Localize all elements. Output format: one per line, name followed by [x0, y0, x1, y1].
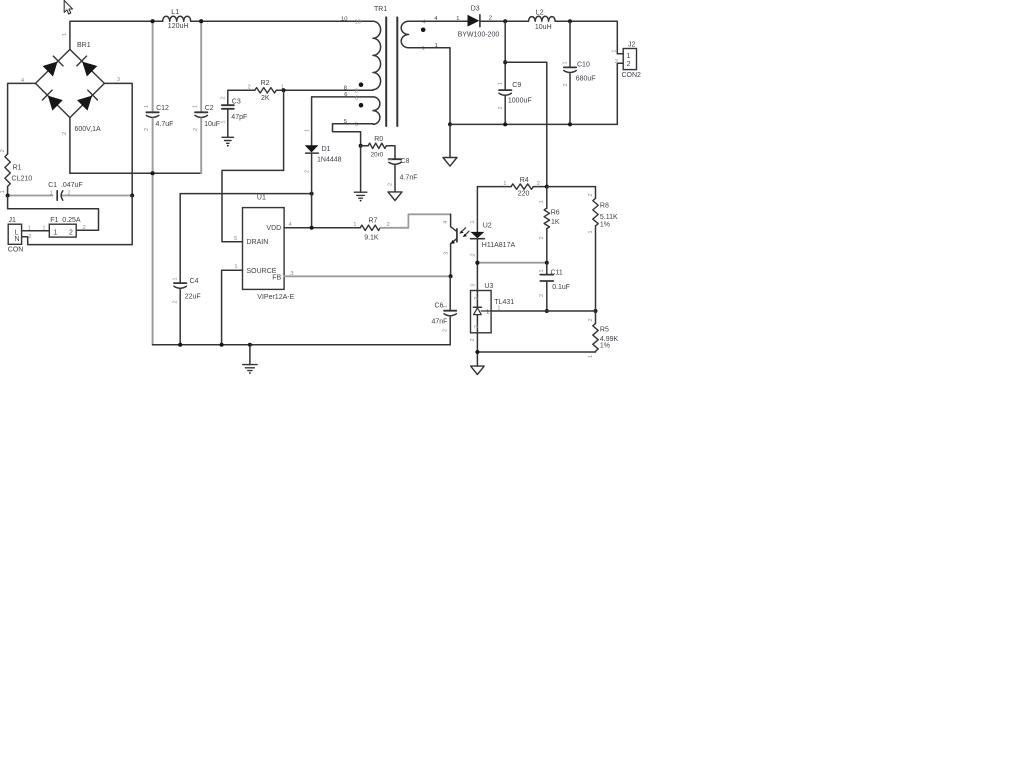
node junction C1 right	[130, 194, 134, 198]
svg-text:2: 2	[220, 96, 226, 99]
svg-text:R0: R0	[374, 136, 383, 143]
wire	[22, 230, 50, 232]
svg-text:9.1K: 9.1K	[364, 234, 379, 241]
optocoupler U2 LED arrows	[460, 228, 469, 237]
node junction overlay dots	[151, 19, 480, 265]
svg-text:D3: D3	[471, 6, 480, 13]
svg-text:1K: 1K	[551, 219, 560, 226]
node junction source gnd	[220, 343, 224, 347]
svg-text:2: 2	[442, 329, 448, 332]
svg-text:4: 4	[443, 221, 449, 224]
svg-text:CON: CON	[8, 247, 24, 254]
svg-text:120uH: 120uH	[168, 23, 189, 30]
capacitor C10	[563, 21, 596, 124]
node junction C4 gnd	[178, 343, 182, 347]
wire	[547, 187, 596, 199]
svg-text:1: 1	[442, 305, 448, 308]
svg-text:2: 2	[304, 170, 310, 173]
svg-text:1: 1	[144, 105, 150, 108]
svg-text:0.25A: 0.25A	[62, 217, 81, 224]
svg-text:1: 1	[220, 120, 226, 123]
svg-text:4.7uF: 4.7uF	[156, 121, 174, 128]
capacitor C6	[432, 276, 457, 344]
wire	[409, 48, 450, 125]
svg-text:2: 2	[0, 149, 6, 152]
svg-text:J1: J1	[9, 217, 17, 224]
svg-text:.047uF: .047uF	[61, 182, 83, 189]
svg-text:U2: U2	[483, 222, 492, 229]
ground arrow C8	[388, 192, 402, 201]
svg-text:BR1: BR1	[77, 42, 91, 49]
svg-text:1: 1	[422, 46, 425, 52]
svg-text:R6: R6	[551, 210, 560, 217]
svg-text:1: 1	[486, 309, 489, 315]
svg-text:47nF: 47nF	[432, 319, 448, 326]
svg-text:1000uF: 1000uF	[508, 97, 532, 104]
svg-text:10uH: 10uH	[535, 24, 552, 31]
svg-text:4.7nF: 4.7nF	[400, 175, 418, 182]
inductor L1	[163, 9, 191, 30]
wire	[449, 124, 451, 157]
node junction gnd sym	[248, 343, 252, 347]
svg-text:2: 2	[83, 225, 86, 231]
svg-text:C1: C1	[48, 182, 57, 189]
svg-text:2: 2	[563, 83, 569, 86]
svg-text:1: 1	[172, 277, 178, 280]
svg-text:R1: R1	[13, 165, 22, 172]
svg-text:C12: C12	[156, 105, 169, 112]
svg-text:10: 10	[341, 16, 347, 22]
svg-text:2: 2	[28, 234, 31, 240]
svg-text:CON2: CON2	[622, 72, 642, 79]
svg-text:VIPer12A-E: VIPer12A-E	[257, 294, 294, 301]
resistor R2	[248, 80, 285, 102]
svg-text:1: 1	[588, 230, 594, 233]
svg-text:3: 3	[470, 284, 476, 287]
ground earth primary	[243, 345, 257, 374]
svg-text:1: 1	[42, 225, 45, 231]
node junction C9 bottom	[503, 122, 507, 126]
fuse F1	[42, 217, 85, 237]
svg-text:2: 2	[193, 128, 199, 131]
svg-text:2: 2	[539, 294, 545, 297]
svg-text:R4: R4	[520, 177, 529, 184]
node junction bottom-left rail	[151, 171, 155, 175]
svg-text:1N4448: 1N4448	[317, 157, 342, 164]
resistor R0	[361, 136, 387, 158]
capacitor C1	[8, 182, 133, 200]
capacitor C4	[172, 194, 200, 345]
svg-text:C8: C8	[400, 158, 409, 165]
svg-text:H11A817A: H11A817A	[482, 242, 516, 249]
node junction C9 tap	[503, 60, 507, 64]
svg-text:1: 1	[62, 33, 68, 36]
resistor R5	[477, 311, 618, 358]
wire	[284, 89, 373, 91]
svg-text:L1: L1	[171, 9, 179, 16]
ground arrow U3	[471, 366, 485, 374]
svg-text:3: 3	[474, 297, 480, 300]
svg-text:1: 1	[234, 264, 237, 270]
node junction top rail C12	[151, 19, 155, 23]
svg-text:2: 2	[539, 236, 545, 239]
resistor R1	[0, 149, 32, 193]
svg-text:2: 2	[470, 338, 476, 341]
transformer TR1	[341, 6, 438, 128]
svg-text:2: 2	[67, 190, 70, 196]
wire ref	[491, 305, 595, 311]
svg-text:1: 1	[497, 305, 500, 311]
svg-text:5: 5	[234, 236, 237, 242]
node junction R2 pin8	[282, 88, 286, 92]
svg-text:C3: C3	[232, 99, 241, 106]
capacitor C11	[539, 263, 570, 311]
svg-text:6: 6	[344, 92, 347, 98]
wire	[505, 62, 547, 186]
svg-text:D1: D1	[322, 146, 331, 153]
svg-text:2: 2	[62, 132, 68, 135]
svg-text:2K: 2K	[261, 95, 270, 102]
svg-text:1: 1	[456, 16, 459, 22]
svg-text:8: 8	[355, 88, 358, 94]
node junction R0	[359, 144, 363, 148]
transistor U3 TL431	[470, 283, 514, 342]
svg-text:1: 1	[563, 61, 569, 64]
svg-text:FB: FB	[272, 275, 281, 282]
wire	[180, 193, 311, 195]
node junction FB	[449, 274, 453, 278]
svg-text:1%: 1%	[600, 342, 610, 349]
ground earth C3	[222, 137, 234, 146]
wire	[8, 83, 36, 154]
svg-text:1: 1	[54, 229, 58, 236]
svg-text:2: 2	[144, 128, 150, 131]
node junction U3 gnd	[475, 350, 479, 354]
svg-text:1: 1	[353, 222, 356, 228]
svg-text:1%: 1%	[600, 222, 610, 229]
svg-text:R5: R5	[600, 326, 609, 333]
wire	[312, 96, 373, 98]
svg-text:20r0: 20r0	[371, 151, 384, 158]
node junction L2 C10	[568, 19, 572, 23]
capacitor C8	[388, 158, 418, 192]
svg-text:1: 1	[539, 200, 545, 203]
svg-text:220: 220	[518, 191, 530, 198]
svg-text:C9: C9	[512, 82, 521, 89]
svg-text:2: 2	[627, 61, 631, 68]
svg-text:10: 10	[355, 20, 361, 26]
svg-text:C2: C2	[205, 105, 214, 112]
svg-text:6: 6	[355, 95, 358, 101]
svg-text:R7: R7	[369, 218, 378, 225]
svg-text:22uF: 22uF	[185, 293, 201, 300]
inductor L2	[529, 9, 556, 31]
wire	[284, 227, 360, 229]
svg-text:1: 1	[627, 53, 631, 60]
svg-text:0.1uF: 0.1uF	[552, 284, 570, 291]
svg-text:L2: L2	[536, 9, 544, 16]
node junction R6 C11	[545, 261, 549, 265]
capacitor C9	[498, 21, 532, 124]
svg-text:VDD: VDD	[266, 225, 281, 232]
svg-text:1: 1	[498, 82, 504, 85]
wire	[380, 214, 450, 228]
diode D1	[304, 97, 341, 228]
wire ground rail	[152, 173, 154, 344]
svg-text:C11: C11	[551, 269, 563, 276]
svg-text:1: 1	[470, 220, 476, 223]
connector J1	[8, 217, 32, 254]
svg-text:2: 2	[588, 318, 594, 321]
svg-text:10uF: 10uF	[204, 121, 220, 128]
svg-text:2: 2	[69, 229, 73, 236]
svg-text:TR1: TR1	[374, 6, 387, 13]
wire	[7, 186, 9, 195]
wire FB	[284, 275, 450, 277]
wire	[104, 83, 132, 195]
wire	[69, 118, 71, 174]
wire	[191, 20, 373, 22]
svg-text:1: 1	[539, 269, 545, 272]
svg-text:C10: C10	[577, 62, 590, 69]
ground arrow secondary	[443, 158, 457, 167]
svg-text:2: 2	[173, 300, 179, 303]
capacitor C12	[144, 21, 174, 173]
svg-text:1: 1	[388, 158, 394, 161]
wire	[228, 90, 255, 105]
svg-text:U3: U3	[484, 283, 493, 290]
wire	[153, 344, 451, 346]
node junction R8 R5	[594, 309, 598, 313]
svg-text:1: 1	[503, 181, 506, 187]
node junction R4 R6	[545, 185, 549, 189]
svg-text:680uF: 680uF	[576, 75, 596, 82]
op-amp U1 VIPer12A-E	[234, 195, 295, 302]
svg-text:5.11K: 5.11K	[600, 214, 618, 221]
node junction VDD pin	[310, 226, 314, 230]
node junction C10 bottom	[568, 122, 572, 126]
wire	[8, 196, 99, 231]
svg-text:2: 2	[537, 181, 540, 187]
svg-text:J2: J2	[628, 41, 636, 48]
resistor R8	[588, 193, 618, 311]
svg-text:2: 2	[388, 183, 394, 186]
svg-text:N: N	[15, 236, 20, 243]
node junction U2 C11	[475, 261, 479, 265]
wire	[476, 333, 478, 366]
svg-text:DRAIN: DRAIN	[247, 239, 269, 246]
svg-text:1: 1	[0, 190, 6, 193]
svg-text:600V,1A: 600V,1A	[75, 126, 102, 133]
wire	[409, 20, 468, 22]
wire	[450, 63, 623, 124]
svg-text:3: 3	[444, 252, 450, 255]
wire	[222, 90, 284, 242]
node junction C11 ref	[545, 309, 549, 313]
svg-text:1: 1	[304, 129, 310, 132]
svg-text:CL210: CL210	[12, 175, 33, 182]
svg-text:U1: U1	[257, 195, 266, 202]
capacitor C2	[193, 21, 220, 173]
svg-text:2: 2	[588, 193, 594, 196]
capacitor C3	[220, 96, 247, 137]
svg-text:F1: F1	[50, 217, 58, 224]
svg-text:C4: C4	[190, 278, 199, 285]
svg-text:1: 1	[611, 50, 617, 53]
wire	[22, 196, 133, 245]
svg-text:47pF: 47pF	[231, 114, 247, 121]
resistor R7	[353, 218, 389, 242]
bridge rectifier BR1	[21, 33, 120, 135]
connector J2	[611, 41, 641, 79]
svg-text:2: 2	[498, 106, 504, 109]
wire	[360, 146, 362, 192]
wire	[333, 124, 374, 146]
wire	[222, 270, 243, 345]
svg-text:1: 1	[588, 355, 594, 358]
wire	[386, 146, 395, 159]
resistor R4	[477, 177, 546, 198]
wire	[555, 21, 623, 54]
node junction VDD-D1	[310, 192, 314, 196]
svg-text:2: 2	[248, 84, 251, 90]
wire	[477, 262, 546, 264]
svg-text:2: 2	[470, 253, 476, 256]
mouse cursor	[64, 0, 72, 14]
svg-text:1: 1	[50, 190, 53, 196]
resistor R6	[539, 187, 560, 263]
ground earth aux	[354, 192, 367, 201]
wire	[70, 172, 201, 174]
svg-text:BYW100-200: BYW100-200	[458, 31, 500, 38]
svg-text:2: 2	[489, 16, 492, 22]
svg-text:8: 8	[344, 85, 347, 91]
node junction top rail C2	[199, 19, 203, 23]
wire	[70, 21, 163, 49]
svg-text:3: 3	[117, 77, 120, 83]
optocoupler U2 transistor side	[443, 214, 457, 276]
svg-text:R2: R2	[261, 80, 270, 87]
node junction D3 C9	[503, 19, 507, 23]
node junction C1 left	[6, 194, 10, 198]
diode D3	[456, 6, 528, 39]
optocoupler U2 LED	[470, 187, 515, 291]
svg-text:R8: R8	[600, 203, 609, 210]
svg-text:1: 1	[193, 105, 199, 108]
node junction sec gnd	[448, 122, 452, 126]
svg-text:2: 2	[474, 325, 480, 328]
